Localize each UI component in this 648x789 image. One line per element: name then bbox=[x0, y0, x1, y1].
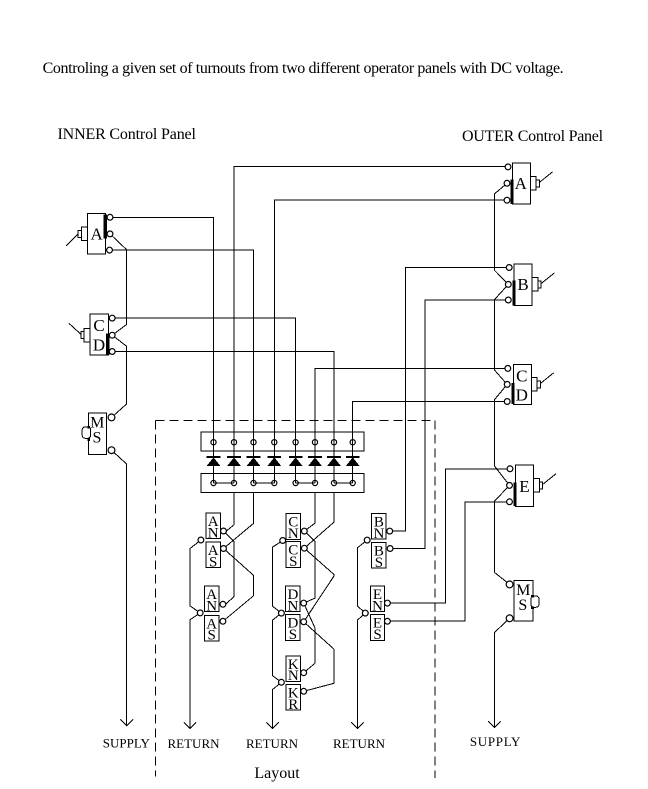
diode D3 bbox=[247, 456, 261, 458]
svg-text:A: A bbox=[515, 174, 528, 193]
terminal: KN/KR upper feed (right) bbox=[301, 670, 307, 676]
terminal: A1 pin 3 bbox=[107, 247, 113, 253]
coil AN/AS 1 lower winding AS bbox=[206, 542, 220, 568]
wire: diode pair link 5-6 bbox=[296, 482, 315, 484]
terminal: CD2 pin 3 bbox=[504, 399, 510, 405]
svg-text:RETURN: RETURN bbox=[246, 736, 299, 751]
wire: inner A NC terminal to diode column 3 bbox=[110, 250, 254, 483]
wire: coil DS to coil KR via column bbox=[304, 622, 334, 692]
coil KN/KR lower winding KR bbox=[286, 685, 300, 711]
wire: coil AN1 to coil AN2 via column bbox=[226, 533, 235, 604]
svg-text:S: S bbox=[289, 554, 297, 570]
svg-text:OUTER Control Panel: OUTER Control Panel bbox=[462, 128, 604, 145]
switch A2 lever bbox=[539, 172, 552, 183]
svg-text:N: N bbox=[287, 598, 298, 614]
terminal: AN/AS 1 common (left) bbox=[198, 537, 204, 543]
svg-text:N: N bbox=[206, 598, 217, 614]
terminal: E2 pin 2 bbox=[507, 483, 513, 489]
terminal: KN/KR lower feed (right) bbox=[301, 688, 307, 694]
wire: outer CD C terminal to diode column 6 bbox=[315, 368, 507, 483]
wire: supply bus into outer MS top terminal bbox=[495, 573, 510, 585]
diode D1 bbox=[207, 456, 221, 458]
terminal: AN/AS 1 upper feed (right) bbox=[221, 528, 227, 534]
svg-text:R: R bbox=[288, 697, 298, 713]
svg-text:D: D bbox=[516, 386, 528, 405]
switch B2 contact bar bbox=[512, 281, 515, 306]
svg-text:S: S bbox=[375, 555, 383, 571]
diode block bottom terminal strip bbox=[201, 473, 364, 492]
wire: outer B NO terminal to coil BN bbox=[390, 268, 510, 532]
switch CD1 contact bar bbox=[106, 333, 110, 355]
wire: diode column 2 down to coil AN1 bbox=[226, 493, 234, 532]
arrowhead: RETURN 3 bbox=[351, 722, 363, 728]
terminal: EN/ES lower feed (right) bbox=[385, 618, 391, 624]
coil EN/ES upper winding EN bbox=[370, 586, 384, 612]
coil AN/AS 1 upper winding AN bbox=[206, 513, 220, 539]
svg-text:E: E bbox=[519, 477, 529, 496]
switch A1 actuator bbox=[81, 227, 87, 240]
svg-text:N: N bbox=[373, 526, 384, 542]
terminal: BN/BS upper feed (right) bbox=[387, 528, 393, 534]
wire: coil CN to coil DN via column bbox=[304, 531, 315, 603]
terminal: AN/AS 1 lower feed (right) bbox=[221, 546, 227, 552]
terminal: CD1 pin 3 bbox=[109, 349, 115, 355]
wire: return bus 1 from coil pair AN1/AS1 to RETURN arrow bbox=[190, 540, 201, 613]
switch CD1 lever bbox=[69, 323, 81, 334]
terminal: diode block bottom 8 bbox=[350, 480, 355, 485]
wire: return bus 2 from coil CN/CS to RETURN arrow bbox=[272, 541, 282, 614]
terminal: CD1 pin 1 bbox=[109, 315, 115, 321]
switch MS2 (outer panel master) body bbox=[514, 580, 533, 621]
svg-text:SUPPLY: SUPPLY bbox=[103, 736, 151, 751]
terminal: CD2 pin 2 bbox=[504, 382, 510, 388]
terminal: MS1 pin 2 bbox=[108, 447, 115, 454]
switch MS1 (inner panel master) body bbox=[88, 413, 106, 454]
wire: outer E NC terminal to coil ES bbox=[387, 502, 509, 621]
svg-text:D: D bbox=[93, 336, 105, 355]
arrowhead: RETURN 2 bbox=[266, 722, 278, 728]
terminal: B2 pin 1 bbox=[506, 265, 512, 271]
switch A2 actuator bbox=[530, 177, 536, 190]
terminal: diode block bottom 5 bbox=[293, 480, 298, 485]
terminal: A2 pin 2 bbox=[504, 180, 510, 186]
terminal: diode block bottom 7 bbox=[331, 480, 336, 485]
terminal: CN/CS upper feed (right) bbox=[301, 528, 307, 534]
svg-text:Controling a given set of turn: Controling a given set of turnouts from … bbox=[43, 60, 564, 77]
arrowhead: RETURN 1 bbox=[184, 722, 196, 728]
diode D6 bbox=[308, 456, 322, 458]
switch B2 lever bbox=[541, 273, 554, 284]
terminal: MS2 pin 2 bbox=[506, 615, 513, 622]
wire: return bus 3 from coil BN/BS to RETURN arrow bbox=[357, 540, 367, 613]
svg-text:S: S bbox=[373, 627, 381, 643]
layout boundary dashed vertical left bbox=[155, 421, 157, 777]
wire: diode column 3 down to coil AS1 bbox=[224, 493, 254, 549]
terminal: A1 pin 1 bbox=[107, 214, 113, 220]
terminal: diode block top 4 bbox=[272, 440, 277, 445]
terminal: diode block bottom 2 bbox=[231, 480, 236, 485]
svg-text:A: A bbox=[90, 225, 103, 244]
wire: outer A NO terminal to diode column 2 bbox=[234, 167, 508, 483]
terminal: B2 pin 2 bbox=[505, 282, 511, 288]
svg-text:B: B bbox=[517, 275, 528, 294]
terminal: diode block top 6 bbox=[312, 440, 317, 445]
wire: supply bus through outer E pole bbox=[495, 466, 510, 572]
terminal: diode block bottom 6 bbox=[312, 480, 317, 485]
terminal: DN/DS upper feed (right) bbox=[301, 600, 307, 606]
coil CN/CS upper winding CN bbox=[286, 514, 300, 540]
terminal: CD2 pin 1 bbox=[505, 366, 511, 372]
svg-text:RETURN: RETURN bbox=[333, 736, 386, 751]
switch CD2 actuator bbox=[531, 378, 537, 391]
svg-text:SUPPLY: SUPPLY bbox=[470, 734, 521, 749]
diode D8 bbox=[346, 456, 360, 458]
svg-text:S: S bbox=[209, 554, 217, 570]
terminal: A2 pin 3 bbox=[504, 197, 510, 203]
terminal: DN/DS common (left) bbox=[279, 610, 285, 616]
terminal: CN/CS lower feed (right) bbox=[301, 545, 307, 551]
coil KN/KR upper winding KN bbox=[286, 656, 300, 682]
wire: supply bus into inner CD pole bbox=[112, 324, 127, 404]
wire: diode pair link 3-4 bbox=[254, 482, 275, 484]
wire: supply bus through outer CD pole bbox=[495, 370, 508, 466]
wire: diode column 6 down to coil CN bbox=[304, 493, 315, 532]
terminal: BN/BS common (left) bbox=[364, 537, 370, 543]
svg-text:S: S bbox=[289, 627, 297, 643]
wire: supply bus into inner MS top terminal bbox=[112, 404, 127, 418]
svg-text:INNER Control Panel: INNER Control Panel bbox=[58, 126, 197, 143]
terminal: CN/CS common (left) bbox=[280, 538, 286, 544]
svg-text:S: S bbox=[518, 597, 527, 614]
switch CD1 (inner panel) body bbox=[90, 314, 108, 355]
wire: inner CD D terminal to diode column 7 bbox=[112, 352, 334, 484]
wire: coil AS1 to coil AS2 via column bbox=[223, 549, 254, 622]
switch E2 actuator bbox=[534, 479, 540, 492]
terminal: A2 pin 1 bbox=[505, 164, 511, 170]
terminal: EN/ES common (left) bbox=[362, 610, 368, 616]
wire: inner A NO terminal to diode column 1 bbox=[110, 217, 214, 483]
terminal: AN/AS 2 upper feed (right) bbox=[220, 601, 226, 607]
switch A2 contact bar bbox=[510, 180, 513, 204]
svg-text:C: C bbox=[93, 316, 104, 335]
terminal: E2 pin 3 bbox=[507, 499, 513, 505]
wire: diode column 7 down to coil CS bbox=[304, 493, 334, 549]
terminal: MS1 pin 1 bbox=[108, 414, 115, 421]
diode D4 bbox=[268, 456, 282, 458]
terminal: diode block top 5 bbox=[293, 440, 298, 445]
terminal: diode block bottom 3 bbox=[251, 480, 256, 485]
wire: outer E NO terminal to coil EN bbox=[387, 469, 510, 603]
coil BN/BS upper winding BN bbox=[372, 514, 386, 540]
terminal: CD1 pin 2 bbox=[109, 332, 115, 338]
switch B2 actuator bbox=[532, 278, 538, 291]
svg-text:S: S bbox=[208, 628, 216, 644]
terminal: diode block top 3 bbox=[251, 440, 256, 445]
terminal: diode block top 1 bbox=[211, 440, 216, 445]
terminal: diode block top 2 bbox=[231, 440, 236, 445]
switch A2 (outer panel) body bbox=[512, 163, 530, 204]
layout boundary dashed horizontal bbox=[156, 420, 436, 422]
arrowhead: inner SUPPLY bbox=[121, 719, 133, 725]
switch CD1 actuator bbox=[84, 329, 90, 342]
switch E2 lever bbox=[543, 474, 556, 485]
coil EN/ES lower winding ES bbox=[370, 615, 384, 641]
wire: outer A pole diagonal to supply bus bbox=[495, 183, 507, 270]
terminal: diode block top 7 bbox=[331, 440, 336, 445]
svg-text:S: S bbox=[93, 430, 102, 447]
switch CD2 contact bar bbox=[511, 383, 514, 404]
coil DN/DS upper winding DN bbox=[286, 586, 300, 612]
terminal: diode block top 8 bbox=[350, 440, 355, 445]
wire: coil DN to coil KN via column bbox=[304, 603, 315, 673]
terminal: AN/AS 2 common (left) bbox=[197, 610, 203, 616]
switch A1 lever bbox=[66, 234, 78, 246]
wire: diode pair link 1-2 bbox=[214, 482, 235, 484]
switch MS1 actuator capsule bbox=[82, 427, 91, 439]
svg-text:RETURN: RETURN bbox=[168, 736, 221, 751]
svg-text:Layout: Layout bbox=[254, 765, 300, 782]
wire: diode pair link 7-8 bbox=[334, 482, 353, 484]
switch E2 (outer panel) body bbox=[515, 465, 533, 506]
coil DN/DS lower winding DS bbox=[286, 615, 300, 641]
terminal: B2 pin 3 bbox=[505, 297, 511, 303]
switch B2 (outer panel) body bbox=[514, 264, 532, 306]
switch MS2 actuator capsule bbox=[531, 596, 539, 607]
arrowhead: outer SUPPLY bbox=[488, 721, 500, 727]
layout boundary dashed vertical right bbox=[434, 421, 436, 779]
terminal: diode block bottom 4 bbox=[272, 480, 277, 485]
switch A1 contact bar bbox=[103, 215, 107, 239]
switch A1 (inner panel) body bbox=[87, 213, 105, 254]
svg-text:N: N bbox=[208, 525, 219, 541]
diode D5 bbox=[289, 456, 303, 458]
coil AN/AS 2 lower winding AS bbox=[205, 615, 219, 641]
wire: outer B NC terminal to coil BS bbox=[390, 300, 508, 549]
coil BN/BS lower winding BS bbox=[372, 543, 386, 569]
coil CN/CS lower winding CS bbox=[286, 542, 300, 568]
diode D2 bbox=[227, 456, 241, 458]
coil AN/AS 2 upper winding AN bbox=[205, 586, 219, 612]
terminal: DN/DS lower feed (right) bbox=[301, 619, 307, 625]
wire: inner MS bottom terminal to SUPPLY arrow bbox=[112, 450, 127, 725]
terminal: KN/KR common (left) bbox=[279, 679, 285, 685]
terminal: AN/AS 2 lower feed (right) bbox=[220, 618, 226, 624]
svg-text:C: C bbox=[516, 367, 527, 386]
svg-text:N: N bbox=[288, 526, 299, 542]
wire: supply bus through outer B pole bbox=[495, 270, 509, 370]
wire: outer CD D terminal to diode column 8 bbox=[353, 402, 508, 484]
terminal: A1 pin 2 bbox=[107, 231, 113, 237]
diode D7 bbox=[327, 456, 341, 458]
terminal: E2 pin 1 bbox=[507, 466, 513, 472]
switch E2 contact bar bbox=[513, 483, 516, 507]
switch CD2 (outer panel) body bbox=[513, 365, 531, 405]
wire: outer A NC terminal to diode column 4 bbox=[274, 200, 507, 483]
switch CD2 lever bbox=[540, 373, 553, 384]
svg-text:N: N bbox=[288, 668, 299, 684]
svg-text:N: N bbox=[372, 598, 383, 614]
diode block top terminal strip bbox=[201, 432, 364, 451]
wire: outer MS bottom terminal to SUPPLY arrow bbox=[494, 618, 509, 727]
terminal: diode block bottom 1 bbox=[211, 480, 216, 485]
terminal: EN/ES upper feed (right) bbox=[385, 600, 391, 606]
terminal: BN/BS lower feed (right) bbox=[387, 546, 393, 552]
wire: inner CD C terminal to diode column 5 bbox=[112, 318, 295, 483]
wire: inner A pole diagonal to supply bus bbox=[110, 234, 127, 324]
terminal: MS2 pin 1 bbox=[506, 581, 513, 588]
wire: coil CS to coil DS via column bbox=[304, 548, 334, 622]
